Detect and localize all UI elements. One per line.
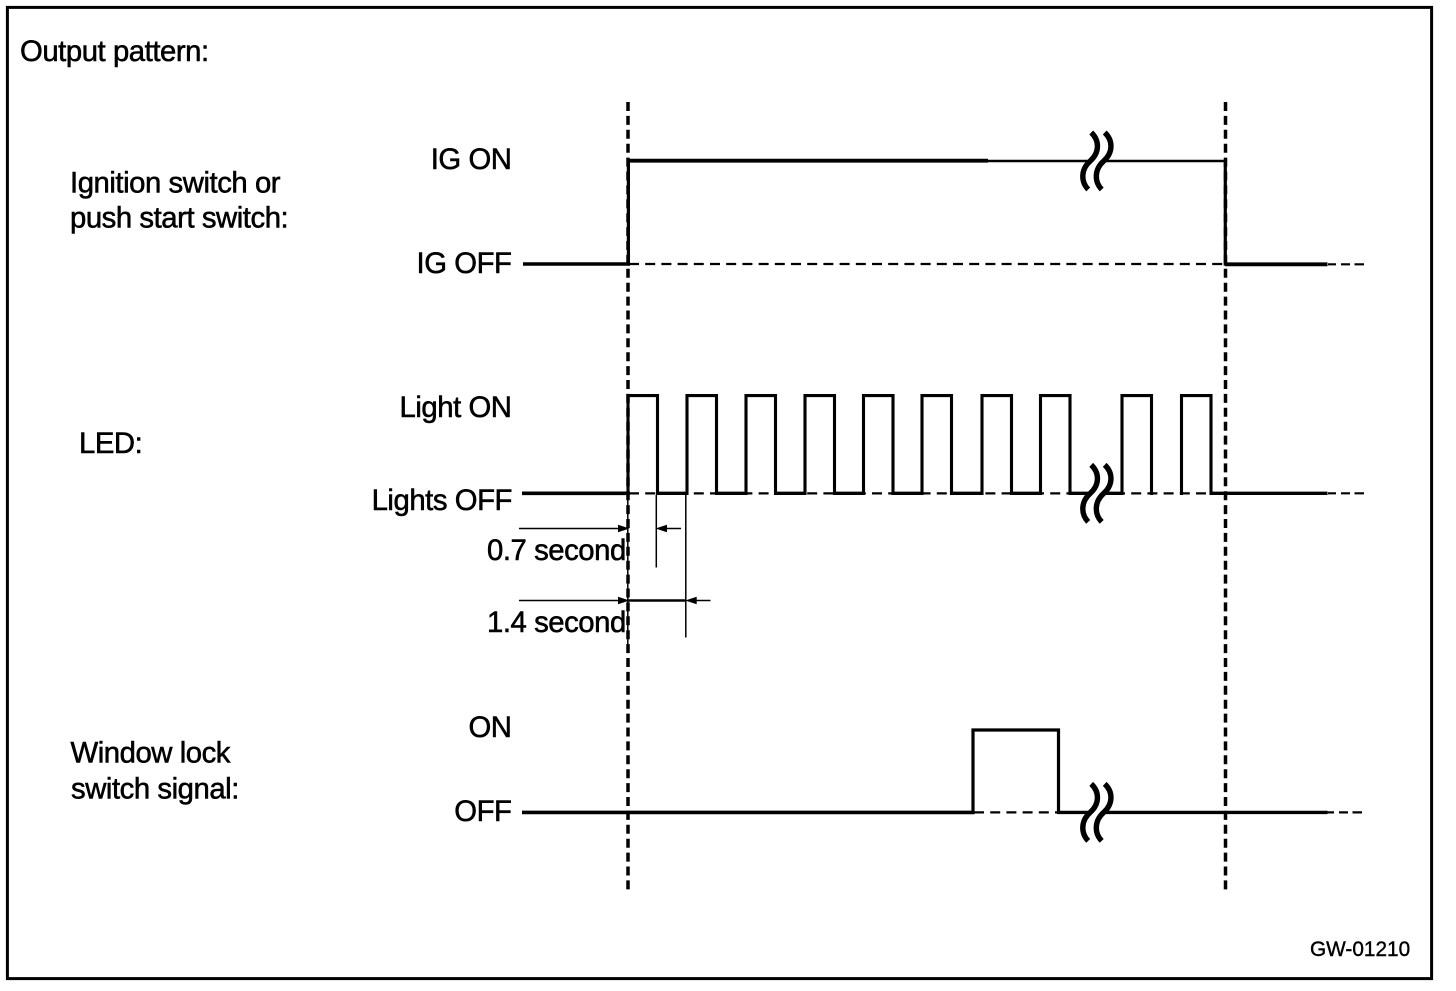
IG falling edge wire	[1224, 161, 1227, 266]
svg-text:OFF: OFF	[454, 795, 511, 828]
LED off wire 5-6	[893, 492, 922, 495]
IG ON level wire (thick segment)	[627, 159, 988, 163]
LED pulse 2	[687, 396, 717, 495]
break squiggle left (IG)	[1083, 133, 1098, 190]
window lock OFF dashed under pulse	[974, 811, 1057, 813]
LED off wire 4-5	[835, 492, 864, 495]
LED off wire 1-2	[658, 492, 688, 495]
break squiggle right (window lock)	[1096, 784, 1111, 841]
1.4s dimension leader line	[519, 600, 619, 602]
svg-text:IG OFF: IG OFF	[417, 247, 512, 280]
0.7s arrow tail	[667, 528, 682, 530]
LED pulse 5	[864, 396, 894, 495]
window lock OFF lead solid wire	[522, 811, 975, 815]
LED off wire 7-8	[1012, 492, 1041, 495]
svg-text:Ignition switch or: Ignition switch or	[70, 167, 281, 200]
dimension extension line at t0	[627, 497, 629, 650]
break gap on LED off line	[1090, 486, 1105, 500]
svg-text:1.4 second: 1.4 second	[487, 606, 626, 639]
Lights OFF lead-in wire	[522, 491, 630, 495]
LED pulse 1	[628, 396, 658, 495]
LED OFF dashed baseline	[629, 492, 1224, 494]
1.4s left-pointing arrowhead	[685, 597, 697, 604]
LED off wire 8-9 across break	[1070, 492, 1122, 495]
LED pulse 7	[982, 396, 1012, 495]
IG ON level wire (thin segment)	[988, 160, 1227, 163]
svg-text:IG ON: IG ON	[431, 143, 512, 176]
LED pulse 9	[1122, 396, 1152, 495]
LED OFF dashed tail wire	[1328, 492, 1364, 494]
dashed vertical timeline 2 (IG OFF instant)	[1224, 102, 1228, 890]
LED pulse 6	[922, 396, 952, 495]
LED off wire 2-3	[717, 492, 747, 495]
svg-text:LED:: LED:	[79, 427, 142, 460]
LED pulse 8	[1041, 396, 1071, 495]
LED off wire 3-4	[776, 492, 806, 495]
break squiggle left (window lock)	[1083, 784, 1098, 841]
0.7s left-pointing arrowhead	[656, 525, 668, 532]
dimension extension line at 0.7s	[655, 495, 657, 568]
svg-text:ON: ON	[468, 711, 511, 744]
LED pulse 3	[746, 396, 776, 495]
LED pulse 4	[805, 396, 835, 495]
dimension extension line at 1.4s	[685, 495, 687, 638]
break gap on IG ON line	[1090, 154, 1105, 168]
svg-text:Window lock: Window lock	[71, 737, 231, 770]
svg-text:0.7 second: 0.7 second	[487, 534, 626, 567]
break squiggle left (LED)	[1083, 465, 1098, 522]
LED off wire 6-7	[952, 492, 983, 495]
0.7s dimension leader line	[519, 528, 619, 530]
1.4s dimension span wire	[628, 599, 686, 601]
window lock pulse	[973, 730, 1059, 814]
svg-text:Output pattern:: Output pattern:	[20, 35, 209, 68]
0.7s right-pointing arrowhead	[618, 525, 630, 532]
break gap on window lock off line	[1090, 805, 1105, 819]
window lock OFF right solid wire	[1057, 811, 1328, 814]
LED off wire after pulse 10	[1211, 492, 1328, 495]
1.4s right-pointing arrowhead	[618, 597, 630, 604]
svg-text:Light ON: Light ON	[399, 391, 511, 424]
1.4s arrow tail	[696, 600, 711, 602]
svg-text:Lights OFF: Lights OFF	[372, 484, 512, 517]
IG rising edge wire	[627, 161, 630, 266]
svg-text:switch signal:: switch signal:	[71, 773, 239, 806]
dashed vertical timeline 1 (IG ON instant)	[626, 102, 630, 890]
IG OFF right solid wire	[1225, 262, 1328, 266]
IG OFF dashed baseline	[629, 263, 1224, 265]
svg-text:GW-01210: GW-01210	[1310, 938, 1410, 961]
break squiggle right (LED)	[1096, 465, 1111, 522]
IG OFF lead-in wire	[523, 262, 630, 266]
break squiggle right (IG)	[1096, 133, 1111, 190]
svg-text:push start switch:: push start switch:	[70, 202, 288, 235]
LED pulse 10	[1182, 396, 1212, 495]
IG OFF dashed tail wire	[1328, 263, 1364, 265]
window lock OFF dashed tail wire	[1326, 811, 1362, 813]
